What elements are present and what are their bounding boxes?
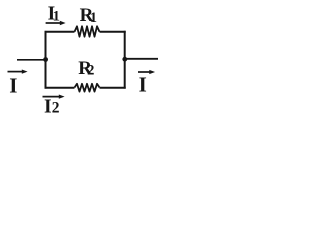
wire: left vertical branch (45, 31, 47, 89)
svg-text:1: 1 (53, 8, 60, 24)
wire: input lead (left, into node A) (17, 59, 46, 61)
node B (right junction dot) (122, 57, 127, 62)
svg-text:I: I (139, 72, 147, 96)
svg-text:2: 2 (87, 63, 94, 79)
wire: bottom-left segment (45, 87, 75, 89)
svg-text:1: 1 (90, 10, 97, 26)
wire: top-left segment (45, 31, 75, 33)
wire: right vertical branch (124, 31, 126, 89)
resistor R2 (75, 84, 100, 92)
node A (left junction dot) (43, 57, 48, 62)
svg-text:I: I (44, 97, 52, 118)
arrow for output current I (138, 71, 150, 73)
arrow for I2 (43, 96, 60, 98)
resistor R1 (75, 26, 100, 36)
svg-text:2: 2 (52, 100, 60, 117)
arrow for input current I (8, 71, 23, 73)
wire: top-right segment (100, 31, 126, 33)
svg-text:I: I (9, 73, 17, 97)
wire: bottom-right segment (100, 87, 126, 89)
wire: output lead (right, out of node B) (125, 58, 158, 60)
arrow for I1 (46, 22, 61, 24)
